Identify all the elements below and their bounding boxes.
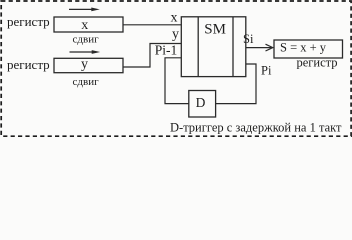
shift arrow above register x xyxy=(69,8,100,12)
adder SM inner left divider xyxy=(197,17,199,77)
svg-text:сдвиг: сдвиг xyxy=(73,76,100,88)
wire y: register y output to adder input xyxy=(123,44,181,68)
svg-text:регистр: регистр xyxy=(297,55,338,69)
svg-text:Pi: Pi xyxy=(261,63,272,77)
shift arrow above register y xyxy=(70,50,101,54)
D flip-flop box xyxy=(189,91,216,118)
svg-text:Si: Si xyxy=(243,32,254,46)
register y box xyxy=(54,58,123,72)
svg-text:сдвиг: сдвиг xyxy=(73,33,100,45)
svg-text:S = x + y: S = x + y xyxy=(280,40,327,54)
svg-text:x: x xyxy=(81,18,88,33)
result register box S = x + y xyxy=(274,40,343,58)
svg-text:D: D xyxy=(196,95,206,110)
svg-text:Pi-1: Pi-1 xyxy=(155,43,178,58)
wire Pi: adder carry output to D flip-flop input xyxy=(216,64,256,104)
dashed figure border xyxy=(1,1,351,136)
svg-text:SM: SM xyxy=(204,22,226,38)
svg-text:x: x xyxy=(171,11,178,26)
svg-text:y: y xyxy=(81,57,88,72)
svg-text:регистр: регистр xyxy=(7,57,50,72)
register x box xyxy=(54,17,123,32)
svg-text:D-триггер с задержкой на 1 так: D-триггер с задержкой на 1 такт xyxy=(170,121,342,135)
svg-text:регистр: регистр xyxy=(7,14,50,29)
wire Pi-1: D flip-flop output feedback to adder carry input xyxy=(165,58,189,104)
wire x: register x output to adder input xyxy=(123,24,181,26)
adder SM box xyxy=(181,17,246,77)
adder SM inner right divider xyxy=(232,17,234,77)
wire Si: adder sum output arrow to result register xyxy=(246,44,273,51)
svg-text:y: y xyxy=(172,27,179,42)
